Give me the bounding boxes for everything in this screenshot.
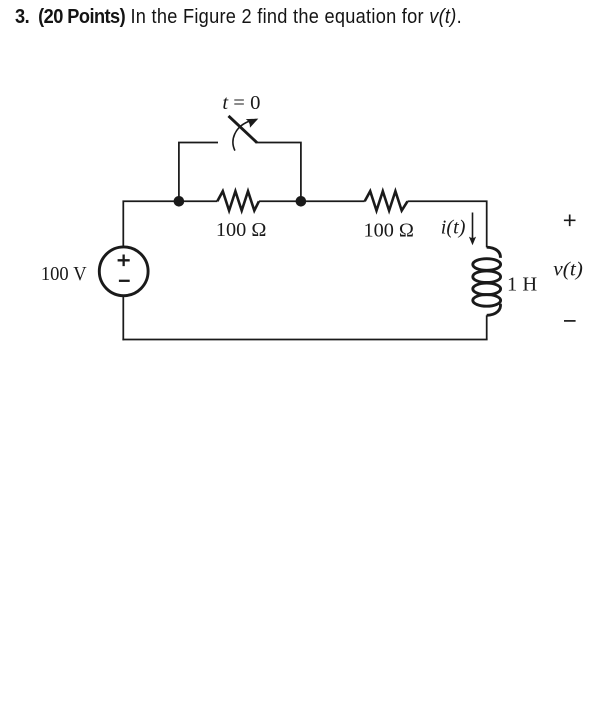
svg-text:i(t): i(t) [441,217,466,239]
wire: bypass branch left vertical and top-left horizontal [179,143,218,202]
plus terminal of v(t) [564,215,576,227]
node A (left junction dot) [174,196,185,207]
svg-text:100 Ω: 100 Ω [364,219,415,241]
switch opening arc [233,121,249,150]
resistor R2 100 ohm zigzag [365,191,408,210]
resistor R1 100 ohm zigzag [217,191,259,210]
switch arrowhead [246,119,258,128]
svg-text:t = 0: t = 0 [222,92,260,114]
voltage source 100 V circle [99,247,148,296]
svg-text:1 H: 1 H [507,274,537,296]
plus sign inside source [118,255,130,267]
svg-text:v(t): v(t) [553,258,583,280]
current arrow i(t) downward [472,213,474,239]
wire: bottom return wire [122,339,487,341]
svg-text:100 V: 100 V [41,263,87,285]
wire: left below source [122,296,124,341]
minus terminal of v(t) [564,320,576,322]
wire: top middle segment between resistors [259,200,365,202]
minus sign inside source [119,280,130,282]
wire: bypass branch top-right horizontal and right vertical [256,143,301,202]
wire: right below inductor to bottom-right corner [486,315,488,339]
wire: top right segment from R2 to top-right corner, down to inductor [408,201,487,247]
problem statement header [15,6,462,29]
switch SW blade [229,116,258,143]
inductor L1 coil [473,247,501,315]
wire: top left segment from source top corner to node A [123,201,217,247]
svg-text:100 Ω: 100 Ω [216,219,267,241]
node B (right junction dot) [296,196,307,207]
